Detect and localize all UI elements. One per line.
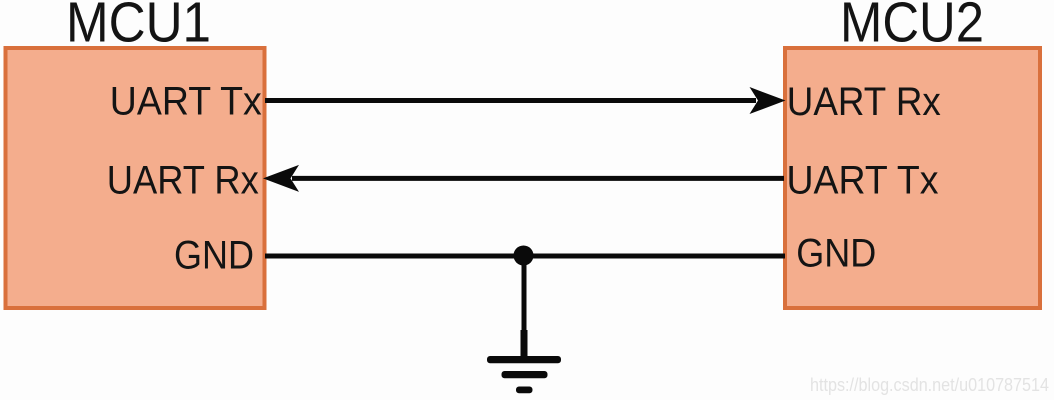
svg-text:GND: GND [796, 232, 876, 276]
wire ground drop (junction to ground symbol) [522, 256, 527, 340]
block MCU1 [6, 48, 265, 308]
arrowhead into MCU2 Rx [750, 87, 786, 114]
ground symbol bar 3 [516, 387, 533, 394]
svg-text:UART Rx: UART Rx [107, 158, 259, 202]
svg-text:https://blog.csdn.net/u0107875: https://blog.csdn.net/u010787514 [810, 375, 1049, 395]
svg-text:UART Tx: UART Tx [110, 79, 262, 123]
svg-text:UART Rx: UART Rx [787, 80, 941, 124]
svg-text:UART Tx: UART Tx [787, 158, 939, 202]
svg-text:MCU1: MCU1 [66, 0, 211, 54]
wire RX (MCU2 Tx to MCU1 Rx) [292, 176, 784, 181]
ground symbol bar 2 [502, 371, 548, 378]
wire TX (MCU1 Tx to MCU2 Rx) [265, 98, 756, 103]
ground symbol bar 1 [487, 356, 561, 363]
wire GND (MCU1 GND to MCU2 GND) [265, 254, 785, 259]
svg-text:GND: GND [174, 234, 254, 278]
junction dot on GND wire [514, 246, 534, 266]
block MCU2 [785, 48, 1040, 308]
svg-text:MCU2: MCU2 [840, 0, 984, 55]
arrowhead into MCU1 Rx [263, 165, 299, 192]
